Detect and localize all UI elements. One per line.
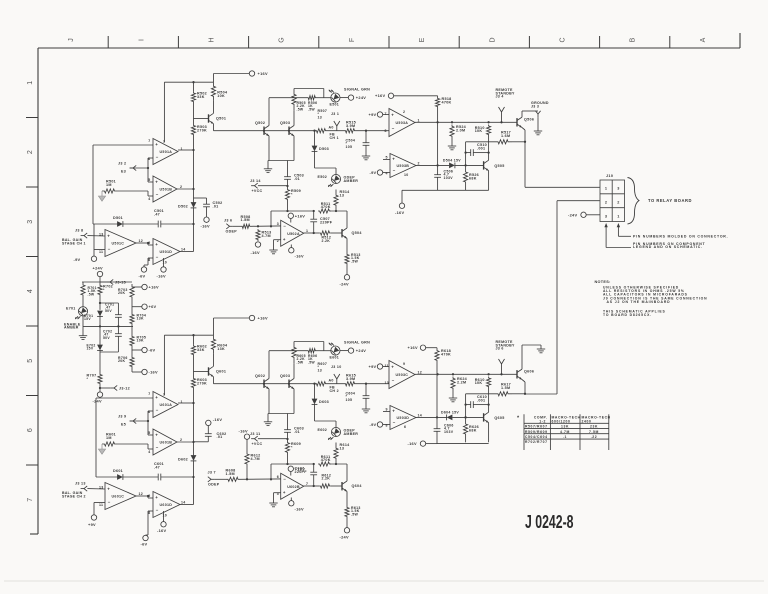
wire D602 down — [193, 461, 195, 505]
svg-text:+: + — [155, 433, 158, 438]
wire C502 top — [194, 197, 207, 199]
junction U601C out — [147, 495, 149, 497]
terminal -16V ladder — [142, 369, 158, 374]
resistor R612 — [319, 473, 331, 488]
wire +9V to pin CH2 — [383, 366, 389, 368]
wire to -24V Q604 — [346, 518, 348, 528]
wire D504 to Q505 base — [455, 164, 484, 166]
svg-text:-16V: -16V — [395, 210, 405, 215]
wire R608 to U602 input — [240, 478, 281, 480]
diode D603 — [312, 399, 329, 405]
capacitor C701 — [105, 303, 122, 327]
junction rail standby CH2 — [436, 373, 502, 375]
terminal -16V standby CH2 — [408, 441, 426, 446]
junction C606 — [436, 416, 467, 418]
op-amp U601D — [148, 492, 185, 518]
resistor R611 — [318, 455, 331, 466]
wire +6V tap — [132, 306, 142, 308]
svg-text:PIN NUMBERS MOLDED ON CONNECTO: PIN NUMBERS MOLDED ON CONNECTOR. — [633, 235, 728, 239]
svg-text:1.5M: 1.5M — [501, 386, 510, 390]
resistor R508 — [241, 215, 252, 229]
label EE5 — [121, 423, 126, 427]
wire U603D out — [416, 416, 447, 418]
svg-text:2: 2 — [27, 150, 34, 154]
diode D701 — [84, 311, 103, 322]
svg-text:-16V: -16V — [213, 417, 223, 422]
svg-text:5: 5 — [386, 156, 388, 160]
wire bracket R605 — [294, 342, 324, 351]
wire enable top node — [82, 281, 107, 283]
wire D503 top — [314, 131, 316, 146]
wire +24V down — [99, 277, 101, 284]
svg-text:B: B — [630, 37, 637, 42]
svg-text:E601: E601 — [330, 356, 340, 360]
terminal +16V U602 — [288, 466, 305, 471]
terminal -6V ladder — [142, 347, 156, 352]
terminal -16V standby CH1 — [395, 203, 405, 215]
transistor Q603 — [280, 374, 294, 389]
wire left vertical standby CH1 — [465, 142, 467, 170]
wire Q502 collector — [268, 98, 270, 126]
svg-text:+16V: +16V — [295, 214, 305, 219]
svg-text:270K: 270K — [197, 128, 207, 132]
svg-text:J3 9: J3 9 — [118, 415, 126, 419]
svg-text:-24V: -24V — [568, 212, 578, 217]
svg-text:-16V: -16V — [157, 528, 167, 533]
terminal -6V CH1 — [139, 267, 147, 279]
op-amp U503A — [385, 361, 423, 389]
wire R518 down 2 — [437, 122, 439, 166]
svg-text:+: + — [155, 395, 158, 400]
wire LED to +24V — [340, 97, 348, 99]
resistor R514 — [334, 190, 350, 212]
junction out U502 — [313, 210, 315, 234]
svg-text:Q605: Q605 — [494, 416, 504, 420]
svg-text:D603: D603 — [319, 400, 329, 404]
wire feedback left — [96, 476, 117, 478]
svg-text:.01: .01 — [294, 177, 300, 181]
wire U601A pin6 to J3 — [148, 411, 153, 435]
label ODEP AMBER — [344, 176, 359, 183]
arrow pin callout 1 — [604, 223, 631, 248]
svg-text:220PF: 220PF — [320, 220, 333, 224]
op-amp U503B — [386, 154, 420, 178]
brace TO RELAY BOARD — [628, 178, 640, 225]
svg-text:-24V: -24V — [340, 535, 350, 540]
svg-text:J3 10: J3 10 — [331, 365, 342, 369]
svg-text:7: 7 — [385, 112, 387, 116]
svg-text:9: 9 — [148, 494, 150, 498]
junction C701 — [99, 302, 120, 328]
junction R517 — [524, 141, 526, 143]
svg-text:105: 105 — [346, 398, 353, 402]
svg-text:10K: 10K — [217, 94, 225, 98]
label E501 — [330, 103, 340, 107]
connector J3-15 — [107, 279, 126, 284]
svg-text:−: − — [283, 476, 286, 481]
connector J3 4 standby — [499, 107, 505, 117]
svg-text:D502: D502 — [178, 205, 188, 209]
svg-text:4.7M: 4.7M — [262, 234, 271, 238]
wire -24V to J10 — [586, 214, 600, 216]
svg-text:13K: 13K — [137, 317, 144, 321]
svg-text:470K: 470K — [442, 100, 452, 104]
svg-text:D601: D601 — [113, 469, 123, 473]
label SIGNAL GRN — [344, 88, 370, 92]
svg-text:LEGEND AND ON SCHEMATIC.: LEGEND AND ON SCHEMATIC. — [633, 245, 703, 249]
resistor R504 — [211, 82, 228, 100]
svg-text:6: 6 — [27, 428, 34, 432]
wire LED row — [269, 350, 307, 352]
svg-text:2.2K: 2.2K — [322, 239, 331, 243]
capacitor C606 — [434, 417, 454, 443]
resistor R502 — [191, 92, 207, 104]
wire Q606 collector to gnd — [522, 345, 541, 369]
wire -9V to pin CH2 — [383, 424, 390, 426]
svg-text:3: 3 — [605, 214, 607, 218]
wire R610 to Q605 — [488, 388, 490, 412]
junction R602 top — [192, 334, 194, 336]
svg-text:9: 9 — [148, 241, 150, 245]
svg-text:U502A: U502A — [287, 232, 300, 236]
svg-text:3: 3 — [163, 393, 165, 397]
label notes body 3 — [603, 309, 666, 317]
label E701 — [66, 307, 76, 311]
wire pin2 gnd — [274, 493, 281, 503]
svg-text:1.5M: 1.5M — [226, 472, 235, 476]
svg-text:U501C: U501C — [112, 242, 125, 246]
junction VCC — [286, 438, 288, 440]
wire Q606 emitter — [522, 380, 525, 395]
op-amp U503A — [385, 109, 420, 137]
svg-text:−: − — [156, 508, 159, 513]
LED E502 ODEP — [328, 174, 340, 186]
label EE3 — [121, 170, 126, 174]
resistor R609 — [285, 441, 301, 454]
wire R506 to LED — [317, 97, 331, 99]
svg-text:9: 9 — [386, 408, 388, 412]
svg-text:-16V: -16V — [201, 224, 211, 229]
wire R518 down — [437, 108, 439, 122]
svg-text:7: 7 — [148, 139, 150, 143]
svg-text:6: 6 — [404, 425, 406, 429]
svg-text:2400: 2400 — [582, 419, 592, 423]
svg-text:AMBER: AMBER — [344, 179, 359, 183]
wire C503 drop — [287, 161, 289, 169]
wire base Q501 — [194, 118, 209, 120]
svg-text:-16V: -16V — [239, 429, 249, 434]
wire Q505 emitter — [488, 171, 490, 191]
terminal -16V CH1 — [157, 267, 167, 279]
ground U602 — [269, 503, 277, 507]
svg-text:J3 2: J3 2 — [118, 162, 126, 166]
svg-text:10K: 10K — [475, 129, 483, 133]
wire C603 drop — [287, 414, 289, 422]
wire C602 bottom — [194, 441, 209, 443]
svg-text:3.9M: 3.9M — [346, 377, 355, 381]
capacitor C702 — [103, 326, 122, 352]
wire +9V to pin CH1 — [383, 114, 389, 116]
wire +16V to R604 CH2 — [214, 318, 250, 335]
wire Q605 emitter — [488, 423, 490, 443]
svg-text:3.9M: 3.9M — [346, 124, 355, 128]
svg-text:-16V: -16V — [157, 274, 167, 279]
svg-text:Q502: Q502 — [255, 121, 265, 125]
resistor R617 — [494, 383, 512, 396]
resistor R503 — [191, 124, 207, 136]
terminal -16V U502 — [289, 248, 304, 259]
wire C701 branch — [100, 302, 118, 304]
svg-text:470K: 470K — [321, 458, 331, 462]
resistor R706 — [118, 356, 134, 368]
wire R702 to D701 — [99, 296, 101, 310]
wire J3 2 to U501B — [130, 167, 148, 169]
ground C504 — [362, 150, 370, 160]
wire R602 top — [194, 335, 214, 344]
wire R705-R706 — [131, 347, 133, 356]
resistor R513b — [345, 253, 361, 265]
resistor R526 — [464, 170, 480, 184]
wire E702 to R707 — [99, 350, 101, 373]
svg-text:+: + — [107, 233, 110, 238]
svg-text:15V: 15V — [87, 347, 94, 351]
resistor R509 — [285, 188, 301, 201]
wire R511 left — [271, 210, 314, 212]
svg-text:2.2K: 2.2K — [322, 477, 331, 481]
LED E602 ODEP — [328, 427, 340, 439]
label +VCC CH2 — [252, 442, 263, 446]
svg-text:U501A: U501A — [160, 150, 173, 154]
capacitor C601 — [154, 462, 164, 480]
wire U501A top pin — [164, 82, 193, 142]
svg-text:50V: 50V — [105, 309, 112, 313]
svg-text:1M: 1M — [106, 183, 112, 187]
svg-text:1.5M: 1.5M — [241, 218, 250, 222]
svg-text:.5W: .5W — [297, 107, 304, 111]
svg-text:*: * — [291, 192, 293, 196]
svg-text:Q503: Q503 — [280, 121, 290, 125]
svg-text:-6V: -6V — [141, 542, 148, 547]
capacitor C504 — [346, 131, 370, 150]
wire Q501 collector — [213, 112, 215, 114]
label +VCC CH1 — [252, 189, 263, 193]
ground J3 3 — [534, 131, 542, 135]
junction R514 bottom — [286, 210, 337, 212]
resistor R515 — [344, 121, 356, 133]
wire Q504 emitter — [346, 238, 348, 253]
wire -6V tap — [132, 349, 142, 351]
wire D701 to E702 — [99, 315, 101, 345]
svg-text:2: 2 — [418, 162, 420, 166]
wire R601 to pin4 — [117, 444, 153, 449]
svg-text:12: 12 — [139, 492, 144, 496]
svg-text:TO RELAY BOARD: TO RELAY BOARD — [648, 198, 692, 203]
svg-text:J3-12: J3-12 — [119, 387, 130, 391]
op-amp U503B — [386, 406, 423, 430]
ground R624 — [449, 390, 457, 402]
label J10 — [606, 174, 613, 178]
wire R509 down — [287, 201, 289, 211]
label notes body — [603, 286, 707, 301]
junction R502 top — [192, 81, 194, 83]
wire +16V rail standby CH1 — [394, 96, 438, 97]
capacitor C506 — [434, 166, 453, 190]
connector J3 6 standby — [499, 359, 505, 369]
label BAL GAIN STAGE CH 1 — [62, 238, 86, 246]
svg-text:4: 4 — [148, 197, 150, 201]
svg-text:U602B: U602B — [287, 485, 300, 489]
wire rail CH1 right — [356, 130, 389, 132]
wire -16V U602 — [290, 498, 292, 501]
svg-text:600/1200: 600/1200 — [552, 419, 571, 423]
svg-text:E502: E502 — [318, 175, 328, 179]
svg-text:20K: 20K — [118, 291, 125, 295]
connector J3 3 GROUND — [535, 111, 540, 118]
wire feedback right — [161, 476, 194, 478]
wire R502 to R503 — [193, 103, 195, 124]
connector J3 14 VCC — [250, 179, 261, 188]
ground R524 — [448, 138, 456, 150]
svg-text:+24V: +24V — [356, 95, 366, 100]
svg-text:+16V: +16V — [408, 345, 418, 350]
wire Q506 emitter — [522, 128, 525, 143]
svg-text:STAGE CH 1: STAGE CH 1 — [62, 242, 86, 246]
resistor R513a — [256, 229, 272, 241]
wire R604 to Q601 — [213, 353, 215, 366]
connector J10 pin numbers — [605, 187, 620, 219]
label ODEP AMBER — [344, 429, 359, 436]
arrow pin callout 2 — [617, 223, 631, 236]
svg-text:.01: .01 — [294, 430, 300, 434]
wire R617 right — [512, 393, 525, 395]
wire LED to +24V — [340, 350, 348, 352]
svg-text:AS J2 ON THE MAINBOARD: AS J2 ON THE MAINBOARD — [607, 300, 671, 304]
ground E701 — [79, 316, 87, 340]
svg-text:7.5M: 7.5M — [589, 430, 599, 434]
svg-text:2: 2 — [617, 200, 619, 204]
svg-text:SIGNAL GRN: SIGNAL GRN — [344, 88, 370, 92]
svg-text:.5W: .5W — [88, 292, 95, 296]
wire pin8 to -6V CH2 — [146, 511, 154, 535]
wire Q501 emitter to rail — [213, 124, 215, 131]
svg-text:−: − — [108, 246, 111, 251]
wire U501D out to feedback — [180, 251, 194, 253]
svg-text:8: 8 — [148, 258, 150, 262]
svg-text:−: − — [156, 408, 159, 413]
svg-text:9: 9 — [403, 362, 405, 366]
svg-text:+: + — [155, 142, 158, 147]
wire bus to pin11 CH1 — [94, 224, 105, 250]
wire -9V to pin CH1 — [383, 172, 390, 174]
wire R504 to Q501 — [213, 100, 215, 113]
junction rail standby CH1 — [436, 121, 502, 123]
svg-text:1: 1 — [617, 214, 619, 218]
transistor Q502 — [255, 121, 269, 136]
svg-text:A0: A0 — [329, 125, 334, 129]
junction R612 bottom — [246, 478, 272, 480]
op-amp U601B — [148, 429, 182, 455]
svg-text:1: 1 — [306, 229, 308, 233]
junction out U602 — [313, 463, 315, 487]
svg-text:.5W: .5W — [351, 512, 359, 516]
wire J10 row2 from CH2 — [525, 201, 600, 394]
wire Q503 collector — [293, 110, 295, 125]
svg-text:AMBER: AMBER — [344, 432, 359, 436]
resistor R510 — [475, 125, 491, 137]
label BAL GAIN STAGE CH 2 — [62, 491, 86, 499]
svg-text:D503: D503 — [319, 147, 329, 151]
svg-text:H: H — [209, 37, 216, 42]
svg-text:7: 7 — [148, 392, 150, 396]
wire R707 to -24V — [99, 385, 101, 392]
resistor R604 — [211, 335, 228, 353]
svg-text:E602: E602 — [318, 428, 328, 432]
wire R502 top — [194, 82, 214, 91]
resistor R703 — [118, 284, 134, 300]
label REMOTE STANDBY CH2 — [496, 340, 516, 351]
svg-text:D602: D602 — [178, 458, 188, 462]
svg-text:+VCC: +VCC — [252, 189, 263, 193]
capacitor C602 — [205, 426, 227, 442]
svg-text:.001: .001 — [477, 398, 485, 402]
svg-text:J3 8: J3 8 — [75, 229, 83, 233]
wire left vertical standby CH2 — [465, 394, 467, 422]
terminal -24V Q504 — [340, 275, 350, 287]
svg-text:33K: 33K — [197, 95, 205, 99]
terminal +16V U502 — [288, 213, 305, 218]
svg-text:-9V: -9V — [74, 257, 81, 262]
wire R611 node — [330, 463, 347, 465]
junction R513 top — [257, 225, 272, 227]
svg-text:4.7M: 4.7M — [251, 457, 260, 461]
svg-text:Q606: Q606 — [524, 370, 534, 374]
svg-text:10K: 10K — [475, 381, 483, 385]
wire -16V U502 — [290, 245, 292, 248]
svg-text:33K: 33K — [197, 348, 205, 352]
label NOTES heading — [595, 280, 611, 284]
svg-text:−: − — [392, 126, 395, 131]
table header text — [534, 416, 611, 424]
svg-text:-6V: -6V — [149, 348, 156, 353]
svg-text:10K: 10K — [137, 339, 144, 343]
svg-text:3: 3 — [617, 187, 619, 191]
svg-text:SIGNAL GRN: SIGNAL GRN — [344, 341, 370, 345]
junction U501C out — [147, 242, 149, 244]
resistor R511 — [318, 202, 331, 213]
svg-text:+9V: +9V — [369, 364, 377, 369]
junction R614 bottom — [286, 463, 337, 465]
svg-text:ODEP: ODEP — [208, 482, 220, 486]
diode D602 — [178, 455, 196, 461]
junction VCC — [286, 185, 288, 187]
wire R612 to Q604 — [331, 485, 342, 487]
terminal +24V enable — [93, 266, 103, 277]
svg-text:*: * — [87, 377, 89, 381]
resistor R507 — [315, 109, 327, 133]
wire rail CH2 left — [214, 383, 316, 385]
svg-text:+: + — [392, 409, 395, 414]
svg-text:-16V: -16V — [149, 370, 159, 375]
wire to -24V Q504 — [346, 265, 348, 275]
svg-text:14: 14 — [418, 414, 423, 418]
transistor Q503 — [280, 121, 294, 136]
wire bus A-B — [193, 403, 195, 442]
svg-text:5: 5 — [27, 359, 34, 363]
svg-text:Q504: Q504 — [352, 231, 363, 235]
label pin numbers legend — [633, 242, 706, 249]
LED E701 ENABLE — [75, 307, 87, 319]
wire J3 3 to ground — [537, 117, 539, 131]
